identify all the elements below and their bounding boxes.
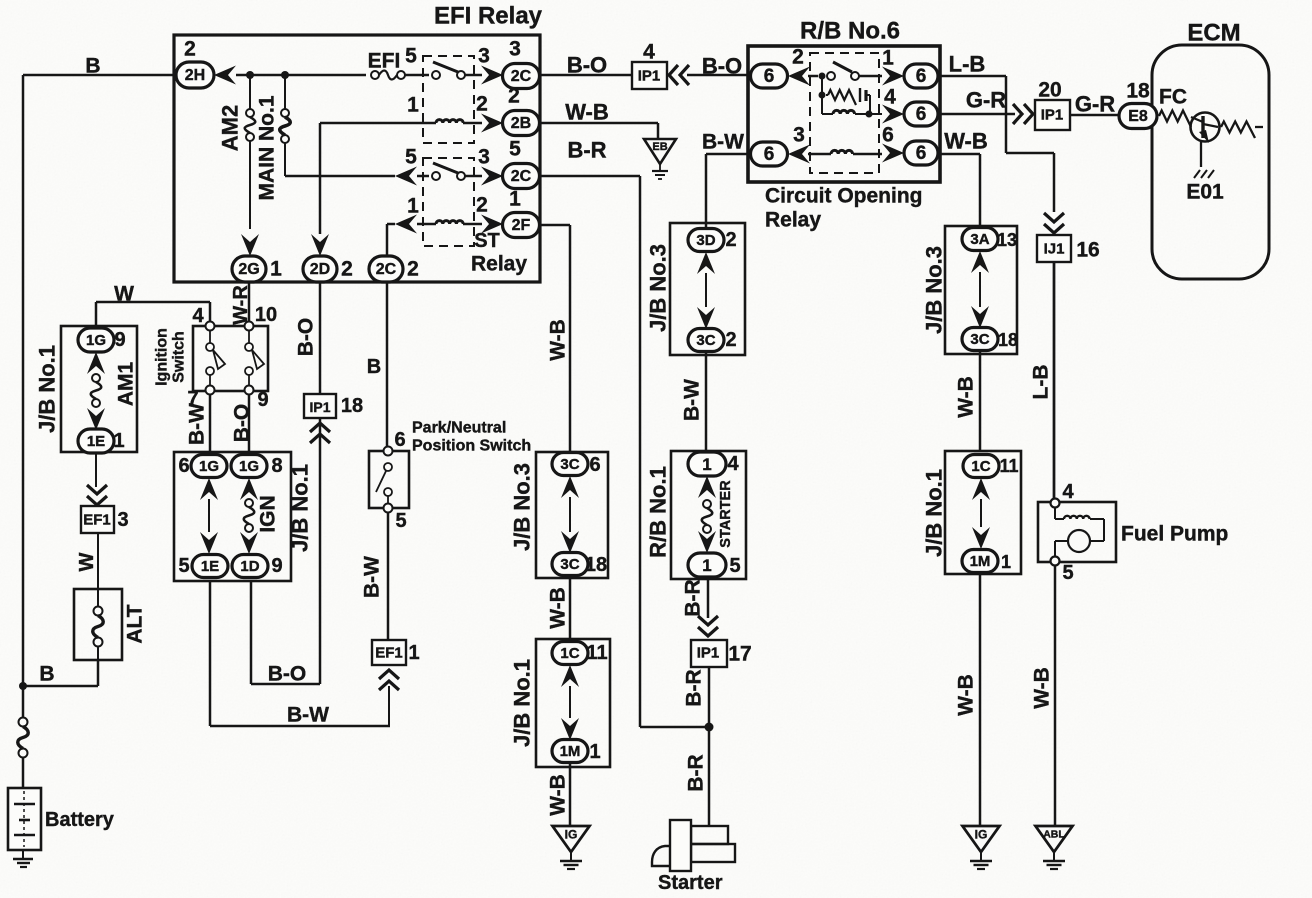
svg-text:1M: 1M xyxy=(560,743,581,760)
svg-text:4: 4 xyxy=(1062,481,1074,503)
svg-text:R/B No.6: R/B No.6 xyxy=(800,18,900,45)
svg-text:B-R: B-R xyxy=(683,669,706,706)
svg-text:G-R: G-R xyxy=(966,88,1006,113)
svg-text:3: 3 xyxy=(117,509,128,531)
svg-text:1: 1 xyxy=(882,47,894,70)
svg-text:L-B: L-B xyxy=(949,52,986,77)
svg-text:17: 17 xyxy=(728,643,751,666)
svg-text:B-O: B-O xyxy=(268,663,307,686)
svg-text:2: 2 xyxy=(792,46,804,69)
svg-text:STARTER: STARTER xyxy=(718,480,734,548)
svg-text:1: 1 xyxy=(270,258,282,281)
svg-text:IGN: IGN xyxy=(257,495,280,532)
svg-text:1: 1 xyxy=(408,642,419,664)
svg-text:1G: 1G xyxy=(199,458,219,475)
svg-text:1: 1 xyxy=(1001,552,1011,572)
svg-text:2: 2 xyxy=(725,229,736,251)
svg-text:2: 2 xyxy=(725,329,736,351)
svg-text:W: W xyxy=(114,283,134,306)
svg-text:2: 2 xyxy=(476,194,488,217)
svg-text:18: 18 xyxy=(341,395,363,417)
svg-text:3C: 3C xyxy=(560,456,579,473)
svg-text:4: 4 xyxy=(643,41,655,64)
svg-text:W-B: W-B xyxy=(547,319,570,361)
svg-text:2C: 2C xyxy=(511,68,532,85)
svg-text:EB: EB xyxy=(652,141,667,153)
svg-text:Fuel Pump: Fuel Pump xyxy=(1121,523,1228,546)
svg-text:3D: 3D xyxy=(696,232,715,249)
svg-text:2: 2 xyxy=(341,258,353,281)
svg-text:11: 11 xyxy=(586,642,607,664)
svg-text:3C: 3C xyxy=(696,332,715,349)
svg-text:1M: 1M xyxy=(970,553,991,570)
svg-text:6: 6 xyxy=(764,66,775,87)
svg-text:W-B: W-B xyxy=(955,674,978,716)
svg-text:1: 1 xyxy=(702,556,711,575)
svg-text:B-R: B-R xyxy=(567,138,606,163)
svg-text:IP1: IP1 xyxy=(1041,107,1064,124)
svg-text:2: 2 xyxy=(508,85,520,108)
svg-text:ALT: ALT xyxy=(124,604,147,643)
svg-text:B-R: B-R xyxy=(682,579,705,616)
svg-text:1C: 1C xyxy=(971,458,990,475)
svg-text:IJ1: IJ1 xyxy=(1044,241,1065,258)
svg-text:Ignition: Ignition xyxy=(154,328,171,386)
svg-text:B-R: B-R xyxy=(685,754,708,791)
svg-text:ABL: ABL xyxy=(1043,829,1065,841)
svg-text:3C: 3C xyxy=(560,556,579,573)
svg-text:18: 18 xyxy=(1126,80,1150,103)
svg-text:2G: 2G xyxy=(238,261,259,278)
svg-text:5: 5 xyxy=(405,45,417,68)
svg-text:B: B xyxy=(85,55,100,78)
svg-text:1G: 1G xyxy=(86,332,106,349)
svg-text:J/B No.3: J/B No.3 xyxy=(646,244,671,332)
svg-text:G-R: G-R xyxy=(1075,92,1115,117)
svg-text:B-O: B-O xyxy=(231,404,254,443)
svg-text:W-B: W-B xyxy=(955,376,978,418)
svg-text:6: 6 xyxy=(916,104,927,125)
svg-text:B-W: B-W xyxy=(702,131,744,154)
svg-text:2H: 2H xyxy=(185,67,205,84)
svg-text:9: 9 xyxy=(114,329,125,351)
svg-text:J/B No.1: J/B No.1 xyxy=(510,659,535,747)
svg-text:AM1: AM1 xyxy=(115,362,138,407)
svg-text:E8: E8 xyxy=(1128,108,1148,125)
svg-text:2D: 2D xyxy=(310,261,330,278)
svg-text:13: 13 xyxy=(997,230,1017,250)
svg-text:3A: 3A xyxy=(970,231,989,248)
svg-text:W-B: W-B xyxy=(1031,667,1054,709)
svg-text:5: 5 xyxy=(405,146,417,169)
svg-text:2: 2 xyxy=(184,38,196,61)
svg-text:3: 3 xyxy=(793,124,805,147)
svg-text:6: 6 xyxy=(916,66,927,87)
svg-text:FC: FC xyxy=(1159,86,1187,109)
svg-text:1D: 1D xyxy=(240,558,259,575)
svg-text:AM2: AM2 xyxy=(218,105,243,151)
svg-text:4: 4 xyxy=(884,86,896,109)
svg-text:1: 1 xyxy=(407,195,419,218)
svg-text:1E: 1E xyxy=(201,558,219,575)
svg-text:J/B No.3: J/B No.3 xyxy=(922,246,947,334)
svg-text:IP1: IP1 xyxy=(638,68,661,85)
svg-text:J/B No.3: J/B No.3 xyxy=(510,463,535,551)
svg-text:1: 1 xyxy=(113,430,124,452)
svg-text:EFI Relay: EFI Relay xyxy=(434,3,543,30)
svg-text:J/B No.1: J/B No.1 xyxy=(35,345,60,433)
svg-text:4: 4 xyxy=(727,453,739,475)
svg-text:1E: 1E xyxy=(87,433,105,450)
svg-text:R/B No.1: R/B No.1 xyxy=(646,466,671,558)
svg-text:W-B: W-B xyxy=(565,100,609,125)
svg-text:B-O: B-O xyxy=(702,54,742,79)
svg-text:6: 6 xyxy=(916,143,927,164)
svg-text:B-W: B-W xyxy=(287,704,329,727)
svg-text:W-B: W-B xyxy=(547,774,570,816)
svg-text:20: 20 xyxy=(1038,79,1061,102)
svg-text:18: 18 xyxy=(998,330,1018,350)
svg-text:Position Switch: Position Switch xyxy=(412,438,531,455)
svg-text:9: 9 xyxy=(271,555,282,577)
svg-text:2C: 2C xyxy=(376,261,397,278)
svg-text:6: 6 xyxy=(589,454,600,476)
svg-text:EFI: EFI xyxy=(368,50,401,73)
svg-text:ST: ST xyxy=(474,230,500,252)
svg-text:1: 1 xyxy=(509,188,521,211)
svg-text:MAIN No.1: MAIN No.1 xyxy=(256,95,279,200)
svg-text:J/B No.1: J/B No.1 xyxy=(288,464,313,552)
svg-text:8: 8 xyxy=(271,455,282,477)
svg-text:3: 3 xyxy=(478,45,490,68)
svg-text:Relay: Relay xyxy=(471,253,527,276)
svg-text:Battery: Battery xyxy=(45,809,115,831)
svg-text:IP1: IP1 xyxy=(697,645,720,662)
svg-text:B: B xyxy=(367,356,381,378)
svg-text:6: 6 xyxy=(882,124,894,147)
svg-text:L-B: L-B xyxy=(1030,365,1053,400)
svg-text:W: W xyxy=(76,552,98,571)
svg-text:IP1: IP1 xyxy=(309,399,330,415)
svg-text:J/B No.1: J/B No.1 xyxy=(922,469,947,557)
svg-text:B-O: B-O xyxy=(295,318,318,357)
svg-text:E01: E01 xyxy=(1186,181,1224,204)
svg-text:1: 1 xyxy=(702,455,711,474)
svg-text:18: 18 xyxy=(585,554,607,576)
svg-text:IG: IG xyxy=(565,828,578,842)
svg-text:3C: 3C xyxy=(970,331,989,348)
svg-text:IG: IG xyxy=(975,828,988,842)
svg-text:Circuit Opening: Circuit Opening xyxy=(765,185,923,208)
svg-text:10: 10 xyxy=(255,304,277,326)
svg-text:1G: 1G xyxy=(239,458,259,475)
svg-text:1C: 1C xyxy=(560,645,579,662)
svg-text:W-B: W-B xyxy=(944,129,988,154)
svg-text:2B: 2B xyxy=(511,115,531,132)
svg-text:2: 2 xyxy=(407,258,419,281)
svg-text:3: 3 xyxy=(509,38,521,61)
svg-text:Switch: Switch xyxy=(171,331,188,383)
svg-text:Relay: Relay xyxy=(765,209,821,232)
svg-text:B: B xyxy=(39,663,54,686)
svg-text:EF1: EF1 xyxy=(375,645,403,662)
svg-text:B-W: B-W xyxy=(186,403,209,445)
svg-text:W-B: W-B xyxy=(547,587,570,629)
svg-text:16: 16 xyxy=(1076,239,1099,262)
svg-text:2C: 2C xyxy=(511,168,532,185)
svg-text:6: 6 xyxy=(394,429,405,451)
svg-text:11: 11 xyxy=(999,456,1018,476)
svg-text:5: 5 xyxy=(509,138,521,161)
svg-text:B-O: B-O xyxy=(567,53,607,78)
svg-text:9: 9 xyxy=(257,389,268,411)
svg-text:4: 4 xyxy=(192,305,204,327)
svg-text:5: 5 xyxy=(395,510,406,532)
svg-text:EF1: EF1 xyxy=(83,512,111,529)
svg-text:B-W: B-W xyxy=(361,556,384,598)
svg-text:3: 3 xyxy=(478,146,490,169)
svg-text:6: 6 xyxy=(178,455,189,477)
svg-text:2F: 2F xyxy=(512,217,531,234)
svg-text:ECM: ECM xyxy=(1187,20,1240,47)
svg-text:5: 5 xyxy=(729,555,740,577)
svg-text:Park/Neutral: Park/Neutral xyxy=(412,420,506,437)
svg-text:Starter: Starter xyxy=(658,872,723,894)
svg-text:6: 6 xyxy=(764,144,775,165)
svg-text:5: 5 xyxy=(178,555,189,577)
svg-text:1: 1 xyxy=(589,741,600,763)
svg-text:1: 1 xyxy=(407,94,419,117)
svg-text:B-W: B-W xyxy=(681,379,704,421)
svg-text:2: 2 xyxy=(476,93,488,116)
svg-text:5: 5 xyxy=(1062,562,1073,584)
